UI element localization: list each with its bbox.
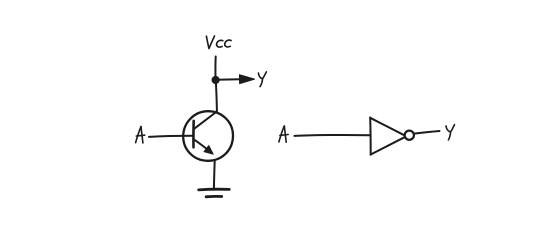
label A (right): [279, 126, 288, 142]
transistor Q1 body circle: [183, 111, 233, 161]
wire junction to transistor: [216, 80, 217, 112]
wire arrow to Y: [217, 78, 242, 81]
emitter arrowhead: [204, 146, 213, 155]
wire A to base: [149, 136, 193, 137]
inverter U1 triangle: [369, 118, 372, 155]
transistor collector line: [194, 112, 217, 129]
label A (left): [136, 127, 145, 143]
wire A to inverter input: [295, 134, 371, 137]
wire bubble to Y: [414, 131, 440, 134]
wire Vcc to junction: [214, 57, 216, 79]
transistor emitter line: [194, 139, 208, 150]
label Vcc: [206, 36, 231, 49]
label Y (left): [258, 72, 266, 87]
label Y (right): [446, 125, 455, 140]
wire emitter to ground: [213, 161, 216, 189]
node junction dot: [212, 76, 220, 84]
ground symbol: [199, 188, 230, 191]
inverter bubble: [405, 131, 414, 140]
transistor base bar: [192, 121, 195, 147]
